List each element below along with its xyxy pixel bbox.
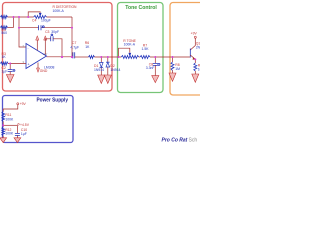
svg-text:Tone Control: Tone Control: [125, 5, 157, 11]
svg-text:100K-A: 100K-A: [124, 42, 136, 46]
svg-text:+9V: +9V: [20, 102, 27, 106]
svg-text:1N914: 1N914: [94, 68, 104, 72]
svg-text:+4.5V: +4.5V: [20, 123, 30, 127]
svg-text:100K-A: 100K-A: [53, 9, 65, 13]
svg-text:100K: 100K: [5, 117, 14, 121]
svg-text:Sch: Sch: [189, 138, 198, 144]
svg-text:C7: C7: [72, 41, 76, 45]
svg-text:+9V: +9V: [191, 32, 198, 36]
svg-text:1K: 1K: [2, 55, 7, 59]
svg-text:1K: 1K: [85, 45, 90, 49]
svg-text:560: 560: [1, 31, 7, 35]
svg-text:C4: C4: [32, 19, 36, 23]
svg-text:2N5: 2N5: [196, 46, 200, 50]
svg-text:100K: 100K: [5, 132, 14, 136]
svg-text:1.5K: 1.5K: [142, 47, 150, 51]
svg-text:1N914: 1N914: [110, 68, 120, 72]
svg-text:1M: 1M: [175, 67, 180, 71]
svg-text:Pro Co Rat: Pro Co Rat: [162, 138, 188, 144]
svg-text:-: -: [28, 46, 29, 50]
svg-text:+: +: [28, 62, 30, 66]
svg-text:100µF: 100µF: [41, 19, 51, 23]
svg-text:3.3nF: 3.3nF: [146, 66, 155, 70]
svg-text:Power Supply: Power Supply: [37, 97, 69, 103]
svg-text:4.7µF: 4.7µF: [70, 46, 79, 50]
svg-text:30pF: 30pF: [51, 30, 59, 34]
svg-text:GND: GND: [40, 69, 48, 73]
svg-text:1µF: 1µF: [21, 132, 27, 136]
svg-text:C3: C3: [45, 30, 49, 34]
svg-text:1µF: 1µF: [2, 69, 8, 73]
svg-text:R11: R11: [5, 113, 11, 117]
svg-text:10K: 10K: [198, 68, 200, 72]
